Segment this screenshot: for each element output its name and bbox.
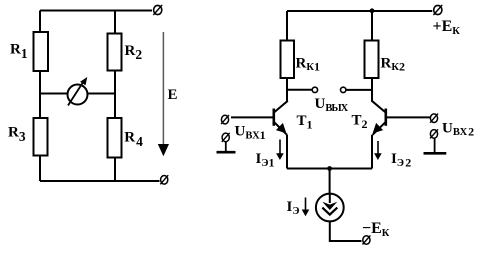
- svg-text:R3: R3: [8, 125, 26, 144]
- wire right branch: [114, 11, 116, 182]
- svg-text:R4: R4: [124, 130, 143, 149]
- wire T1 emitter: [286, 135, 288, 169]
- wire Rk1 top stub: [286, 11, 288, 40]
- wire T2 collector tap to output: [346, 89, 372, 91]
- label T1: [297, 113, 313, 131]
- terminal +Ek: [433, 5, 442, 15]
- label Ie2: [391, 151, 411, 169]
- label E: [168, 87, 178, 103]
- wire bottom rail (bridge): [40, 180, 160, 182]
- node dot top rail: [370, 8, 375, 13]
- wire middle (galvanometer branch): [40, 93, 115, 95]
- resistor Rk1: [281, 41, 320, 79]
- svg-text:IЭ1: IЭ1: [256, 151, 275, 169]
- transistor T2: [372, 101, 386, 135]
- output terminal left (Uout): [312, 87, 317, 92]
- current arrow Ie1: [276, 140, 284, 161]
- output terminal right (Uout): [341, 87, 346, 92]
- terminal top (bridge): [153, 5, 162, 15]
- svg-text:RК1: RК1: [296, 55, 320, 73]
- current arrow Ie: [302, 198, 310, 217]
- svg-text:UВЫХ: UВЫХ: [315, 96, 349, 114]
- wire emitter rail: [287, 168, 372, 170]
- current arrow Ie2: [374, 141, 382, 160]
- transistor T1: [274, 101, 288, 135]
- wire base input 1: [231, 116, 274, 118]
- svg-text:−EК: −EК: [362, 220, 390, 239]
- ground symbol right: [424, 139, 447, 154]
- resistor R2: [108, 34, 143, 71]
- svg-text:IЭ: IЭ: [287, 199, 300, 217]
- svg-text:UВХ2: UВХ2: [442, 120, 474, 138]
- wire top rail (bridge): [40, 10, 152, 12]
- resistor Rk2: [365, 41, 405, 79]
- galvanometer (meter): [68, 77, 88, 106]
- input terminal Uin2: [430, 114, 438, 123]
- resistor R4: [108, 118, 144, 158]
- source arrow E: [158, 32, 169, 156]
- svg-text:RК2: RК2: [381, 55, 405, 73]
- wire T1 collector tap to output: [287, 89, 312, 91]
- label Ie1: [256, 151, 275, 169]
- svg-text:+EК: +EК: [433, 18, 461, 37]
- wire T2 collector: [371, 78, 373, 102]
- label -Ek: [362, 220, 390, 239]
- wire base input 2: [386, 116, 431, 118]
- label Uin1: [235, 124, 266, 142]
- label T2: [352, 113, 368, 131]
- label Uin2: [442, 120, 474, 138]
- wire T1 collector: [286, 78, 288, 102]
- svg-text:R2: R2: [125, 43, 143, 62]
- ground terminal right circle: [430, 129, 438, 138]
- node dot emitter rail: [327, 166, 332, 171]
- resistor R1: [10, 32, 48, 71]
- svg-text:R1: R1: [10, 42, 28, 61]
- wire Rk2 top stub: [371, 11, 373, 40]
- terminal -Ek: [363, 235, 371, 244]
- label Uout: [315, 96, 349, 114]
- wire T2 emitter: [371, 135, 373, 169]
- svg-text:T2: T2: [352, 113, 368, 131]
- svg-text:IЭ2: IЭ2: [391, 151, 411, 169]
- input terminal Uin1: [221, 115, 229, 124]
- resistor R3: [8, 118, 48, 156]
- svg-text:E: E: [168, 87, 178, 103]
- ground terminal left circle: [222, 133, 230, 142]
- wire current source to -Ek: [330, 221, 362, 241]
- current source Ie: [316, 194, 344, 222]
- svg-text:UВХ1: UВХ1: [235, 124, 266, 142]
- wire top rail (+Ek): [287, 10, 432, 12]
- label Ie: [287, 199, 300, 217]
- label +Ek: [433, 18, 461, 37]
- ground symbol left: [217, 142, 236, 152]
- terminal bottom (bridge): [160, 175, 168, 184]
- wire tail to current source: [329, 169, 331, 203]
- svg-text:T1: T1: [297, 113, 313, 131]
- wire left branch: [39, 11, 41, 182]
